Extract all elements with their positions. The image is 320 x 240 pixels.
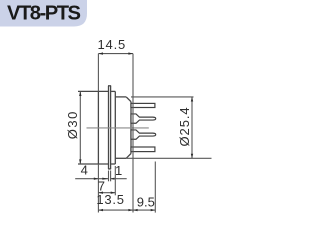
svg-text:4: 4 — [81, 163, 88, 178]
svg-text:9.5: 9.5 — [137, 194, 155, 209]
svg-text:1: 1 — [115, 163, 122, 178]
svg-text:14.5: 14.5 — [98, 37, 127, 52]
svg-text:13.5: 13.5 — [96, 192, 125, 207]
svg-text:Ø30: Ø30 — [65, 110, 80, 139]
svg-text:VT8-PTS: VT8-PTS — [7, 3, 81, 25]
svg-text:Ø25.4: Ø25.4 — [177, 107, 192, 147]
